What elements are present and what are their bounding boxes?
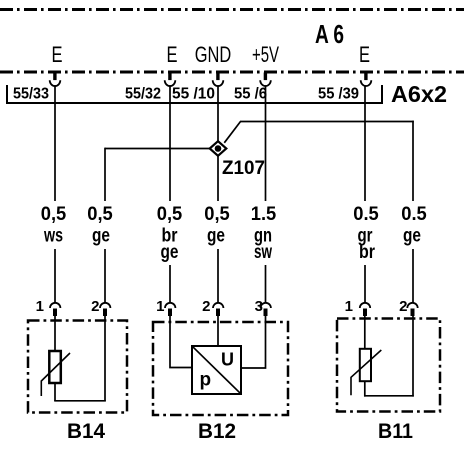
- B11 pin 1 male pin: [363, 309, 367, 317]
- connector A6x2 pin 55/6 male pin: [264, 73, 267, 81]
- svg-text:55/33: 55/33: [13, 85, 49, 102]
- control unit A6 top dash-dot border: [0, 8, 464, 11]
- B11 internal wire to pin2: [412, 316, 414, 397]
- B12 pin 1 socket: [165, 303, 175, 308]
- svg-text:Z107: Z107: [222, 158, 265, 179]
- svg-text:br: br: [359, 242, 376, 263]
- wire Z107 branch diagonal right: [224, 122, 240, 143]
- B14 pin 2 socket: [100, 303, 110, 308]
- svg-text:1: 1: [345, 298, 353, 315]
- svg-text:+5V: +5V: [252, 42, 279, 67]
- svg-text:ge: ge: [207, 226, 225, 247]
- component B11 dash-dot box: [337, 319, 440, 412]
- svg-text:2: 2: [399, 298, 407, 315]
- B14 pin 1 socket: [50, 303, 60, 308]
- svg-text:B11: B11: [378, 420, 413, 443]
- svg-text:1.5: 1.5: [251, 204, 277, 225]
- svg-text:0.5: 0.5: [401, 204, 427, 225]
- node Z107 center dot: [215, 145, 222, 152]
- connector A6x2 pin 55/10 male pin: [216, 73, 219, 81]
- node Z107 diamond: [210, 141, 227, 156]
- svg-text:55 /39: 55 /39: [318, 85, 359, 102]
- svg-text:1: 1: [36, 298, 44, 315]
- connector strip A6x2 outline: [7, 85, 382, 103]
- B12 pin 3 male pin: [264, 309, 268, 317]
- svg-text:55 /10: 55 /10: [172, 85, 215, 102]
- svg-text:B12: B12: [198, 420, 236, 443]
- svg-text:ge: ge: [403, 226, 421, 247]
- B12 sensor diagonal: [193, 347, 240, 393]
- svg-text:55/32: 55/32: [125, 85, 161, 102]
- svg-text:ge: ge: [161, 242, 179, 263]
- svg-text:0.5: 0.5: [353, 204, 379, 225]
- B12 pin 2 socket: [213, 303, 223, 308]
- B14 internal wire to pin2: [104, 316, 106, 401]
- component B12 dash-dot box: [153, 322, 288, 415]
- svg-text:ge: ge: [92, 226, 110, 247]
- B14 pin 2 male pin: [103, 309, 107, 317]
- B12 sensor square U/p: [192, 346, 241, 394]
- B11 pin 1 socket: [360, 303, 370, 308]
- component B14 dash-dot box: [28, 321, 127, 413]
- wire Z107 branch left horizontal: [105, 148, 209, 150]
- wire Z107 branch to B14 pin2: [104, 148, 106, 303]
- connector A6x2 pin 55/6 female socket: [260, 80, 271, 86]
- svg-text:sw: sw: [254, 242, 272, 263]
- svg-text:B14: B14: [67, 420, 105, 443]
- svg-text:E: E: [52, 42, 63, 67]
- B12 pin 1 male pin: [168, 309, 172, 317]
- B11 thermistor body R: [360, 349, 371, 381]
- B12 pin 3 socket: [261, 303, 271, 308]
- svg-text:3: 3: [255, 298, 263, 315]
- svg-text:0,5: 0,5: [87, 204, 113, 225]
- wire 55/32 to B12 pin1: [169, 85, 171, 303]
- B12 pin 2 male pin: [216, 309, 220, 317]
- svg-text:p: p: [200, 370, 212, 391]
- control unit A6 bottom dash-dot border: [0, 71, 464, 74]
- svg-text:E: E: [359, 42, 370, 67]
- wire 55/39 to B11 pin1: [364, 85, 366, 303]
- svg-text:1: 1: [156, 298, 164, 315]
- connector A6x2 pin 55/32 female socket: [165, 80, 176, 86]
- svg-text:0,5: 0,5: [204, 204, 230, 225]
- B11 internal wire pin1 to resistor: [364, 316, 366, 350]
- wire 55/10 to B12 pin2 through Z107: [217, 85, 219, 303]
- wire 55/6 to B12 pin3: [265, 85, 267, 303]
- connector A6x2 pin 55/39 female socket: [361, 80, 372, 86]
- B12 internal wire pin2 down: [217, 316, 219, 346]
- B12 internal wire pin3 down: [241, 316, 266, 368]
- B14 internal wire resistor to bottom: [54, 383, 56, 401]
- B11 thermistor diagonal: [351, 350, 381, 395]
- svg-text:U: U: [221, 350, 234, 370]
- B11 pin 2 socket: [407, 303, 417, 308]
- svg-text:ws: ws: [43, 226, 63, 247]
- connector A6x2 pin 55/10 female socket: [213, 80, 224, 86]
- B14 thermistor diagonal: [41, 353, 70, 396]
- wire label white backs: [39, 201, 68, 249]
- svg-text:2: 2: [202, 298, 210, 315]
- svg-text:A6x2: A6x2: [391, 81, 447, 107]
- connector A6x2 pin 55/33 female socket: [50, 80, 61, 86]
- B11 pin 2 male pin: [411, 309, 415, 317]
- B11 internal wire resistor to bottom: [364, 381, 366, 397]
- B11 internal wire bottom horizontal: [364, 395, 414, 397]
- wire Z107 branch right horizontal: [240, 121, 414, 123]
- connector A6x2 pin 55/39 male pin: [364, 73, 367, 81]
- svg-text:E: E: [167, 42, 178, 67]
- svg-text:0,5: 0,5: [157, 204, 183, 225]
- B14 thermistor body R: [49, 351, 61, 383]
- svg-text:2: 2: [91, 298, 99, 315]
- B14 internal wire bottom horizontal: [54, 400, 106, 402]
- B12 internal wire pin1 down: [170, 316, 192, 368]
- svg-text:A 6: A 6: [315, 19, 344, 49]
- B14 internal wire pin1 to resistor: [54, 316, 56, 352]
- connector A6x2 pin 55/33 male pin: [53, 73, 56, 81]
- svg-text:GND: GND: [195, 42, 232, 67]
- wire Z107 branch to B11 pin2: [412, 121, 414, 303]
- svg-text:0,5: 0,5: [41, 204, 67, 225]
- B14 pin 1 male pin: [53, 309, 57, 317]
- wire 55/33 to B14 pin1: [54, 85, 56, 303]
- svg-text:55 /6: 55 /6: [234, 85, 267, 102]
- connector A6x2 pin 55/32 male pin: [168, 73, 171, 81]
